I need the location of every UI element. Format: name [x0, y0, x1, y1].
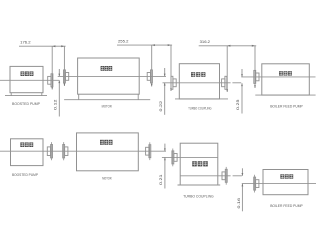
svg-text:255.2: 255.2 [118, 39, 129, 44]
centerline turbo input shaft (row2) [162, 156, 218, 158]
dimension 255.2 (row1, motor-turbo coupling span) [117, 39, 172, 47]
extension line at turbo in coupling face x=171.0 (row1) [170, 45, 172, 91]
block booster pump (row2) [11, 139, 44, 166]
block turbo coupling (row2) [180, 143, 218, 185]
label qianzhibeng (booster pump, row2) [20, 142, 33, 147]
label diandongji (motor, row1) [101, 66, 113, 71]
coupling half feed pump side (row2 gap3) [254, 175, 259, 193]
booster pump foot left (row1) [10, 93, 12, 96]
turbo coupling baseline (row2) [178, 184, 221, 186]
svg-text:BOOSTED PUMP: BOOSTED PUMP [12, 173, 38, 177]
booster pump baseline (row1) [5, 95, 47, 97]
label qianzhibeng (booster pump, row1) [21, 71, 34, 76]
svg-text:176.2: 176.2 [20, 40, 31, 45]
feed pump baseline (row1) [255, 94, 315, 96]
block booster pump (row1) [10, 66, 43, 92]
centerline turbo output shaft (row2) [180, 175, 242, 177]
svg-text:0.16: 0.16 [236, 197, 241, 209]
block motor (row2) [77, 133, 139, 171]
svg-text:0.12: 0.12 [52, 98, 57, 110]
svg-text:TURBO COUPLING: TURBO COUPLING [188, 107, 212, 111]
label diandongji (motor, row2) [100, 140, 113, 145]
svg-text:TURBO COUPLING: TURBO COUPLING [183, 195, 214, 199]
booster pump foot right (row1) [41, 93, 43, 96]
block boiler feed pump (row2) [263, 170, 308, 195]
coupling half feed pump side (row1 gap3) [254, 70, 259, 83]
centerline booster pump shaft (row1) [0, 79, 59, 81]
coupling half turbo out (row1 gap3) [222, 76, 227, 89]
coupling half pump side (row2 gap1) [47, 142, 52, 160]
coupling half pump side (row1 gap1) [48, 74, 53, 87]
motor foot right (row1) [137, 94, 139, 100]
centerline pump+motor shaft (row2) [0, 150, 166, 152]
svg-text:316.2: 316.2 [200, 39, 211, 44]
dimension 316.2 (row1, turbo-feedpump coupling span) [199, 39, 257, 47]
svg-text:0.25: 0.25 [235, 98, 240, 110]
offset dimension 0.21 lines (row2 gap2) [164, 144, 166, 189]
coupling half turbo in (row2 gap2) [172, 149, 177, 167]
extension line at feedpump coupling face x=255.0 (row1) [254, 46, 256, 88]
extension line at turbo out coupling face x=227.2 (row1) [226, 46, 228, 92]
centerline motor shaft (row1) [58, 75, 166, 77]
offset dimension 0.22 lines (row1 gap2) [164, 68, 166, 115]
offset dimension 0.16 lines (row2 gap3) [242, 168, 244, 211]
block turbo coupling (row1) [179, 64, 219, 99]
coupling half motor out (row1 gap2) [147, 70, 152, 83]
block boiler feed pump (row1) [262, 64, 310, 95]
dimension 176.2 (row1, pump-motor coupling span) [19, 40, 66, 48]
label ouheqi (turbo coupling, row2) [192, 161, 208, 166]
svg-text:BOILER FEED PUMP: BOILER FEED PUMP [270, 104, 303, 108]
label geishuibeng (feed pump, row2) [280, 174, 293, 178]
motor foot left (row1) [78, 94, 80, 100]
centerline feed pump shaft (row1) [241, 76, 315, 78]
svg-text:0.21: 0.21 [158, 173, 163, 185]
coupling half motor out (row2 gap2) [146, 142, 151, 160]
label ouheqi (turbo coupling, row1) [191, 72, 205, 77]
svg-text:0.22: 0.22 [158, 100, 163, 112]
extension line at pump coupling face x=52.2 (row1) [51, 46, 53, 89]
coupling half motor side (row2 gap1) [63, 142, 68, 160]
turbo coupling baseline (row1) [175, 98, 228, 100]
label geishuibeng (feed pump, row1) [279, 71, 292, 75]
offset dimension 0.12 lines (row1 gap1) [58, 69, 60, 117]
extension line at motor out coupling face x=151.7 (row1) [151, 45, 153, 86]
motor baseline (row1) [64, 99, 150, 101]
centerline feed pump shaft (row2) [242, 183, 316, 185]
coupling half motor side (row1 gap1) [64, 70, 69, 83]
svg-text:MOTOR: MOTOR [102, 105, 112, 109]
coupling half turbo in (row1 gap2) [171, 76, 176, 89]
offset dimension 0.25 lines (row1 gap3) [241, 69, 243, 114]
svg-text:BOOSTED PUMP: BOOSTED PUMP [12, 102, 40, 106]
svg-text:BOILER FEED PUMP: BOILER FEED PUMP [270, 204, 303, 208]
centerline turbo coupling shaft (row1) [163, 82, 242, 84]
block motor (row1) [78, 58, 140, 94]
svg-text:MOTOR: MOTOR [102, 176, 112, 180]
extension line at motor coupling face x=64.4 (row1) [64, 46, 66, 86]
coupling half turbo out (row2 gap3) [222, 167, 227, 185]
